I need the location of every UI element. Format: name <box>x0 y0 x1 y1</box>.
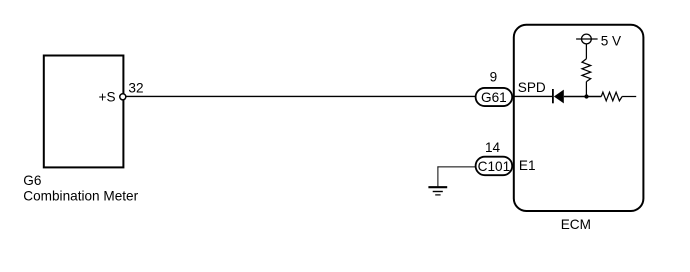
combination meter box G6 <box>44 56 124 168</box>
terminal circle pin 32 <box>120 94 126 100</box>
wire from +S terminal to G61 <box>126 95 476 97</box>
5V supply symbol <box>576 34 598 44</box>
svg-text:G6: G6 <box>23 173 41 188</box>
wire from 5V circle to resistor R1 <box>585 44 587 59</box>
svg-text:14: 14 <box>485 140 501 155</box>
svg-text:+S: +S <box>99 90 116 105</box>
resistor R2 (horizontal zigzag) <box>601 92 622 101</box>
wire from G61 into ECM to diode <box>512 95 552 97</box>
wire from diode to node <box>564 96 602 98</box>
resistor R1 pull-up (vertical zigzag) <box>582 59 591 82</box>
diode D1 cathode bar <box>552 89 554 103</box>
svg-text:E1: E1 <box>519 158 536 173</box>
wire from C101 to ground (vertical) <box>437 166 439 186</box>
ECM box <box>514 25 644 211</box>
diode D1 triangle <box>554 90 564 104</box>
node junction dot <box>584 94 588 98</box>
svg-text:9: 9 <box>490 70 498 85</box>
wire from resistor R1 to node <box>585 82 587 97</box>
svg-text:5 V: 5 V <box>601 33 621 48</box>
svg-text:G61: G61 <box>481 90 507 105</box>
svg-text:32: 32 <box>128 80 143 95</box>
svg-text:C101: C101 <box>478 159 511 174</box>
wire from resistor R2 to right <box>622 96 636 98</box>
wire from C101 to ground (horizontal) <box>437 166 476 168</box>
ground symbol <box>428 187 447 195</box>
svg-text:Combination Meter: Combination Meter <box>23 189 138 204</box>
connector C101 <box>476 157 513 176</box>
svg-text:ECM: ECM <box>561 217 591 232</box>
connector G61 <box>476 88 513 106</box>
svg-text:SPD: SPD <box>518 80 546 95</box>
